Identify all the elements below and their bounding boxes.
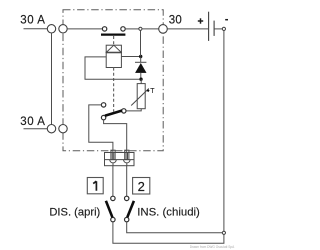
contact stud K1b [121, 27, 125, 31]
switch S1 stud top [111, 196, 115, 200]
switch S2 stud bottom [125, 217, 129, 221]
enclosure dashed box [63, 10, 163, 151]
svg-text:30 A: 30 A [20, 116, 45, 128]
switch S1 arm [106, 201, 113, 218]
label T [147, 88, 156, 95]
main contact bar [101, 33, 125, 35]
wire thermistor to contact B [126, 109, 141, 111]
wire lower-left feed [24, 128, 48, 130]
terminal circle T2a [47, 125, 55, 133]
contact stud A [101, 103, 105, 107]
armature link upper [113, 36, 115, 45]
wire J1 to diode [140, 57, 142, 63]
switch S1 stud bottom [111, 217, 115, 221]
junction dot J2 [139, 78, 142, 81]
contact stud C [101, 115, 105, 119]
battery minus sign [225, 19, 228, 21]
wire J2 to thermistor [140, 79, 142, 83]
svg-text:DIS. (apri): DIS. (apri) [49, 206, 100, 218]
svg-text:30 A: 30 A [20, 15, 45, 27]
connector block [105, 153, 135, 166]
node circle N3 [222, 231, 225, 234]
socket 1 [110, 160, 117, 166]
wire to battery [167, 28, 208, 30]
svg-text:INS. (chiudi): INS. (chiudi) [137, 206, 200, 218]
svg-text:30: 30 [169, 15, 183, 27]
coil wire right [121, 56, 140, 58]
switch S2 arm [127, 201, 134, 217]
coil wire left return [85, 57, 139, 79]
wire pin1 down [112, 166, 114, 197]
junction dot J1 [139, 55, 142, 58]
armature base edge [106, 52, 122, 54]
battery plus sign [198, 18, 203, 23]
thermistor RT1 [131, 84, 149, 109]
node circle N1 [139, 27, 142, 30]
contact stud K1a [102, 27, 106, 31]
armature link lower [113, 68, 115, 112]
battery plus plate [208, 12, 210, 41]
socket 2 [123, 160, 130, 166]
svg-text:T: T [150, 88, 155, 95]
pin 2 [125, 150, 129, 159]
wire contact A to pin 1 [89, 105, 113, 153]
armature box [106, 45, 121, 52]
terminal circle T2b [59, 125, 67, 133]
relay movable arm [105, 111, 122, 116]
diode D1 [135, 62, 146, 78]
terminal box 1 [87, 178, 103, 194]
svg-text:2: 2 [138, 179, 145, 194]
left bus wire down [51, 33, 53, 125]
terminal circle 30 [159, 25, 168, 34]
pin 1 [111, 150, 115, 159]
wire battery negative down [223, 31, 225, 232]
wire S2 to node N3 [127, 222, 223, 233]
terminal circle T1b [59, 25, 67, 33]
wire node to J1 [140, 30, 142, 56]
wire to main contact [67, 28, 102, 30]
terminal circle T1a [47, 25, 55, 33]
wire pin2 down [126, 166, 128, 197]
wire node to terminal 30 [142, 28, 159, 30]
wire contact to node [125, 28, 139, 30]
contact stud B [122, 109, 126, 113]
wire S1 to node N3 [113, 222, 224, 243]
coil box U1 [106, 53, 121, 68]
terminal box 2 [133, 178, 150, 195]
svg-text:Drawn from DWG Osculati SpA: Drawn from DWG Osculati SpA [190, 245, 235, 249]
wire top-left feed [24, 28, 48, 30]
wire battery to node [214, 28, 222, 30]
switch S2 stud top [125, 196, 129, 200]
battery minus plate [213, 21, 215, 36]
wire contact C to pin 2 [104, 120, 127, 153]
node circle N2 [222, 27, 225, 30]
